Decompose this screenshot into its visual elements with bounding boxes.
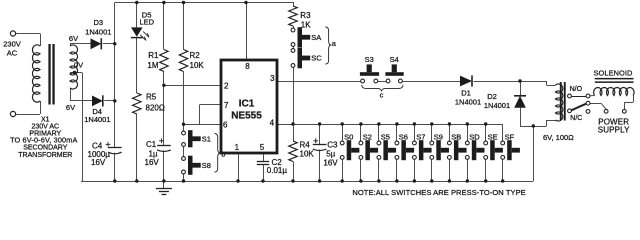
svg-text:16V: 16V <box>323 159 338 168</box>
svg-text:c: c <box>380 91 384 100</box>
svg-text:S5: S5 <box>381 132 390 141</box>
svg-text:SECONDARY: SECONDARY <box>23 145 68 152</box>
svg-text:R3: R3 <box>300 11 311 20</box>
svg-text:5µ: 5µ <box>326 150 335 159</box>
svg-text:NOTE:ALL SWITCHES ARE PRESS-TO: NOTE:ALL SWITCHES ARE PRESS-TO-ON TYPE <box>352 188 525 197</box>
svg-text:R2: R2 <box>190 51 201 60</box>
svg-text:+: + <box>313 136 318 146</box>
svg-text:S8: S8 <box>202 161 211 170</box>
svg-text:4: 4 <box>270 119 275 128</box>
svg-text:S6: S6 <box>399 132 408 141</box>
svg-text:R1: R1 <box>148 51 159 60</box>
svg-text:1M: 1M <box>147 61 158 70</box>
svg-text:6V: 6V <box>69 34 78 43</box>
svg-text:TRANSFORMER: TRANSFORMER <box>18 152 72 159</box>
svg-text:S1: S1 <box>202 134 211 143</box>
svg-text:1N4001: 1N4001 <box>85 28 111 37</box>
svg-text:6: 6 <box>223 120 228 129</box>
svg-text:6V, 100Ω: 6V, 100Ω <box>543 133 574 142</box>
svg-text:TO 6V-0-6V, 300mA: TO 6V-0-6V, 300mA <box>10 136 77 145</box>
svg-text:10K: 10K <box>300 150 315 159</box>
svg-text:R5: R5 <box>146 92 157 101</box>
svg-text:X1: X1 <box>41 116 50 123</box>
svg-text:D2: D2 <box>487 92 497 101</box>
svg-text:NE555: NE555 <box>231 111 262 122</box>
svg-text:R4: R4 <box>300 141 311 150</box>
svg-text:C3: C3 <box>327 141 338 150</box>
svg-text:N/C: N/C <box>570 115 582 122</box>
svg-text:S4: S4 <box>390 55 399 64</box>
svg-text:230V AC: 230V AC <box>31 123 59 130</box>
svg-text:0.01µ: 0.01µ <box>267 166 288 175</box>
svg-text:230V: 230V <box>3 40 21 49</box>
svg-text:+: + <box>159 136 164 146</box>
svg-text:2: 2 <box>224 81 229 90</box>
svg-text:D3: D3 <box>94 18 104 27</box>
svg-text:820Ω: 820Ω <box>146 104 165 113</box>
svg-text:S2: S2 <box>363 132 372 141</box>
svg-text:C1: C1 <box>146 140 157 149</box>
svg-text:S3: S3 <box>365 55 374 64</box>
svg-text:+: + <box>105 139 110 149</box>
svg-text:S9: S9 <box>434 132 443 141</box>
svg-text:D1: D1 <box>461 89 471 98</box>
svg-text:8: 8 <box>245 62 250 71</box>
svg-text:SOLENOID: SOLENOID <box>594 68 633 77</box>
svg-text:3: 3 <box>270 74 275 83</box>
svg-text:SA: SA <box>311 33 321 42</box>
svg-text:LED: LED <box>140 18 155 27</box>
svg-text:1: 1 <box>235 143 240 152</box>
svg-text:N/O: N/O <box>570 86 583 93</box>
svg-text:1N4001: 1N4001 <box>455 98 481 107</box>
svg-text:b: b <box>221 150 225 159</box>
svg-text:1N4001: 1N4001 <box>84 115 110 124</box>
svg-text:SUPPLY: SUPPLY <box>598 125 630 134</box>
svg-text:SB: SB <box>451 132 461 141</box>
svg-text:1K: 1K <box>301 20 311 29</box>
svg-text:6V: 6V <box>66 103 75 112</box>
svg-text:7: 7 <box>224 101 229 110</box>
svg-text:SE: SE <box>488 132 498 141</box>
svg-text:16V: 16V <box>145 158 160 167</box>
svg-text:16V: 16V <box>91 158 106 167</box>
svg-text:1N4001: 1N4001 <box>484 101 510 110</box>
svg-text:IC1: IC1 <box>239 99 255 110</box>
svg-text:SF: SF <box>505 132 515 141</box>
svg-text:10K: 10K <box>190 61 205 70</box>
svg-text:S7: S7 <box>416 132 425 141</box>
svg-text:SD: SD <box>469 132 480 141</box>
svg-text:S0: S0 <box>344 132 353 141</box>
svg-text:0V: 0V <box>74 61 83 70</box>
svg-text:SC: SC <box>311 54 322 63</box>
svg-text:5: 5 <box>260 143 265 152</box>
svg-text:AC: AC <box>7 49 18 58</box>
